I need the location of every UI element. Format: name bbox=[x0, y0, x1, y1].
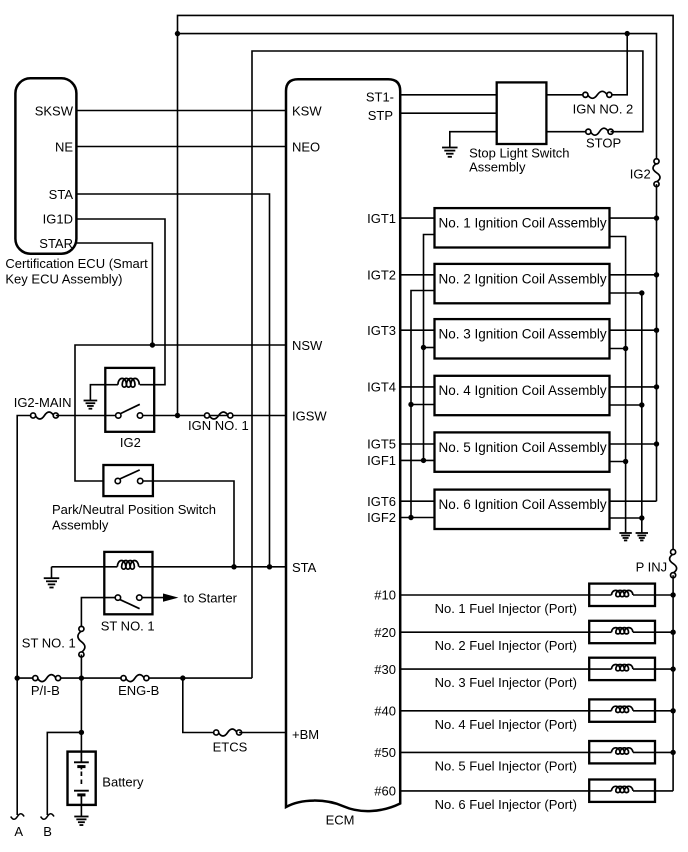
wire injector 6 output bbox=[655, 790, 673, 792]
svg-text:IG2: IG2 bbox=[120, 435, 141, 450]
wire injector 5 output bbox=[655, 751, 673, 753]
wire STP to stop light switch bbox=[400, 112, 497, 114]
svg-text:Park/Neutral Position Switch: Park/Neutral Position Switch bbox=[52, 502, 216, 517]
svg-text:Key ECU Assembly): Key ECU Assembly) bbox=[5, 271, 122, 286]
wire ignition power bus bbox=[656, 184, 658, 218]
node injector bus bbox=[670, 750, 675, 755]
wire ST fuse to bus bbox=[80, 655, 82, 679]
fuse P INJ bbox=[670, 554, 677, 573]
node power bus coil5 bbox=[654, 441, 659, 446]
wire injector 2 output bbox=[655, 631, 673, 633]
wire coil3 feedback lead bbox=[424, 347, 435, 349]
svg-text:IGN NO. 1: IGN NO. 1 bbox=[188, 418, 249, 433]
fuel injector box 6 bbox=[589, 780, 655, 802]
svg-text:No. 6 Fuel Injector (Port): No. 6 Fuel Injector (Port) bbox=[435, 797, 577, 812]
wire IGT6 pin bbox=[400, 500, 434, 502]
wire #40 pin line bbox=[400, 710, 589, 712]
svg-text:IGF1: IGF1 bbox=[367, 453, 396, 468]
node power bus coil4 bbox=[654, 384, 659, 389]
svg-text:IGT5: IGT5 bbox=[367, 437, 396, 452]
svg-text:Stop Light Switch: Stop Light Switch bbox=[469, 146, 569, 161]
svg-text:#60: #60 bbox=[374, 784, 396, 799]
wire NSW line bbox=[75, 345, 286, 481]
svg-text:#40: #40 bbox=[374, 704, 396, 719]
node injector bus bbox=[670, 592, 675, 597]
node IGF1 bus coil5 bbox=[421, 458, 426, 463]
wire coil5 ground lead bbox=[610, 461, 626, 463]
svg-text:No. 2 Ignition Coil Assembly: No. 2 Ignition Coil Assembly bbox=[439, 271, 607, 286]
battery cells bbox=[80, 752, 82, 763]
wire coil4 ground lead bbox=[610, 404, 642, 406]
node ground bus1 coil5 bbox=[623, 459, 628, 464]
battery box bbox=[68, 752, 96, 805]
wire ST1- to stop light switch bbox=[400, 94, 497, 96]
stop light switch assembly bbox=[497, 82, 547, 144]
node IGF2 bus coil4 bbox=[408, 402, 413, 407]
svg-text:ST NO. 1: ST NO. 1 bbox=[22, 636, 76, 651]
ignition coil assembly box 6 bbox=[435, 490, 610, 529]
wire IG2-MAIN fuse to relay contact bbox=[56, 415, 116, 417]
svg-text:IGN NO. 2: IGN NO. 2 bbox=[573, 102, 634, 117]
svg-text:+BM: +BM bbox=[292, 727, 319, 742]
injector coil 1 bbox=[589, 594, 611, 596]
wire coil6 power lead bbox=[610, 500, 657, 502]
ignition coil assembly box 1 bbox=[435, 208, 610, 247]
wire coil ground bus 1 bbox=[610, 237, 626, 534]
svg-text:IG2: IG2 bbox=[630, 167, 651, 182]
svg-text:No. 4 Ignition Coil Assembly: No. 4 Ignition Coil Assembly bbox=[439, 383, 607, 398]
svg-text:Battery: Battery bbox=[102, 775, 144, 790]
ignition coil assembly box 3 bbox=[435, 319, 610, 358]
wire ST relay ground stem bbox=[51, 567, 53, 578]
wire injector 1 output bbox=[655, 594, 673, 596]
wire B branch bbox=[47, 732, 81, 815]
wire ETCS branch bbox=[183, 678, 216, 732]
node STA junction 1 bbox=[231, 564, 236, 569]
wire IGSW line bbox=[143, 415, 286, 417]
svg-text:STP: STP bbox=[368, 108, 393, 123]
node ground bus2 coil4 bbox=[639, 402, 644, 407]
svg-text:No. 1 Ignition Coil Assembly: No. 1 Ignition Coil Assembly bbox=[439, 216, 607, 231]
injector coil 5 bbox=[589, 751, 611, 753]
wire bottom bus bbox=[17, 677, 35, 679]
node IGN NO.2 riser junction bbox=[625, 31, 630, 36]
wire STAR to NSW node bbox=[76, 243, 152, 345]
svg-text:IGT4: IGT4 bbox=[367, 380, 396, 395]
fuse IG2 bbox=[653, 163, 660, 182]
svg-text:STAR: STAR bbox=[39, 236, 73, 251]
wire IG2 relay coil ground lead bbox=[90, 385, 105, 401]
svg-text:No. 4 Fuel Injector (Port): No. 4 Fuel Injector (Port) bbox=[435, 717, 577, 732]
svg-text:ETCS: ETCS bbox=[213, 740, 248, 755]
wire IGF2 bus bbox=[411, 291, 435, 518]
wire stop light switch to IGN NO.2 fuse bbox=[546, 94, 585, 96]
wire STOP fuse to ENG-B bus bbox=[252, 51, 643, 678]
ground (ST NO.1 relay) bbox=[44, 577, 60, 579]
svg-text:KSW: KSW bbox=[292, 104, 322, 119]
wire P/N switch to STA node bbox=[143, 481, 234, 567]
fuse IGN NO. 1 bbox=[209, 412, 228, 419]
svg-text:IG2-MAIN: IG2-MAIN bbox=[14, 395, 72, 410]
svg-text:IG1D: IG1D bbox=[43, 212, 73, 227]
svg-text:IGT3: IGT3 bbox=[367, 323, 396, 338]
wire P INJ to injector bus bbox=[672, 575, 674, 791]
relay ST NO.1 switch bbox=[115, 595, 120, 600]
svg-text:#50: #50 bbox=[374, 745, 396, 760]
svg-text:#10: #10 bbox=[374, 588, 396, 603]
svg-text:STA: STA bbox=[49, 187, 74, 202]
svg-text:IGSW: IGSW bbox=[292, 409, 327, 424]
svg-text:NSW: NSW bbox=[292, 338, 323, 353]
wire #30 pin line bbox=[400, 668, 589, 670]
wire IGN NO.2 output riser bbox=[609, 34, 627, 95]
wire coil3 power lead bbox=[610, 329, 657, 331]
wire coil4 power lead bbox=[610, 386, 657, 388]
relay IG2 coil bbox=[118, 378, 139, 387]
wire SKSW to KSW bbox=[76, 110, 286, 112]
svg-text:No. 5 Fuel Injector (Port): No. 5 Fuel Injector (Port) bbox=[435, 758, 577, 773]
injector coil 6 bbox=[589, 790, 611, 792]
svg-text:STA: STA bbox=[292, 560, 317, 575]
svg-text:#30: #30 bbox=[374, 662, 396, 677]
svg-text:IGT1: IGT1 bbox=[367, 211, 396, 226]
wire IGT5 pin bbox=[400, 443, 434, 445]
certification ECU (Smart Key ECU Assembly) bbox=[15, 78, 76, 253]
wire stop light switch ground lead bbox=[450, 132, 497, 148]
svg-text:No. 1 Fuel Injector (Port): No. 1 Fuel Injector (Port) bbox=[435, 601, 577, 616]
node bus ETCS junction bbox=[180, 675, 185, 680]
svg-text:ST1-: ST1- bbox=[366, 89, 394, 104]
wire #60 pin line bbox=[400, 790, 589, 792]
svg-text:IGT6: IGT6 bbox=[367, 494, 396, 509]
node riser junction bbox=[175, 31, 180, 36]
relay ST NO.1 box bbox=[104, 552, 152, 614]
wire #50 pin line bbox=[400, 751, 589, 753]
ground (ignition coils 1-3-5) bbox=[619, 532, 631, 534]
ignition coil assembly box 4 bbox=[435, 376, 610, 415]
wire IGT4 pin bbox=[400, 386, 434, 388]
wire IGF1 pin bbox=[400, 459, 434, 461]
wire IGT3 pin bbox=[400, 329, 434, 331]
svg-text:ST NO. 1: ST NO. 1 bbox=[101, 618, 155, 633]
node battery junction bbox=[79, 730, 84, 735]
svg-text:Certification ECU (Smart: Certification ECU (Smart bbox=[5, 256, 148, 271]
ground (stop light switch) bbox=[442, 147, 458, 149]
wire coil6 ground lead bbox=[610, 517, 642, 519]
svg-text:SKSW: SKSW bbox=[35, 103, 74, 118]
node power bus coil2 bbox=[654, 272, 659, 277]
svg-text:NEO: NEO bbox=[292, 139, 320, 154]
wire #20 pin line bbox=[400, 631, 589, 633]
svg-text:No. 5 Ignition Coil Assembly: No. 5 Ignition Coil Assembly bbox=[439, 440, 607, 455]
fuse ENG-B bbox=[126, 675, 145, 682]
park/neutral position switch box bbox=[103, 465, 152, 496]
svg-text:B: B bbox=[43, 824, 52, 839]
park/neutral switch contacts bbox=[115, 478, 120, 483]
wire IGT2 pin bbox=[400, 274, 434, 276]
node NSW junction bbox=[150, 342, 155, 347]
wire ETCS to +BM bbox=[239, 732, 286, 734]
wire battery drop bbox=[80, 678, 82, 752]
wire IG1D to IG2 relay coil bbox=[76, 219, 165, 385]
ground (ignition coils 2-4-6) bbox=[636, 532, 648, 534]
svg-text:NE: NE bbox=[55, 139, 73, 154]
fuel injector box 4 bbox=[589, 699, 655, 721]
fuse IGN NO. 2 bbox=[588, 91, 608, 98]
svg-text:IGT2: IGT2 bbox=[367, 268, 396, 283]
wire injector 3 output bbox=[655, 668, 673, 670]
wire to Starter + arrow bbox=[142, 597, 164, 599]
wire IG2-MAIN corner bbox=[17, 416, 33, 816]
svg-text:A: A bbox=[14, 824, 23, 839]
ignition coil assembly box 5 bbox=[435, 432, 610, 471]
node injector bus bbox=[670, 630, 675, 635]
ignition coil assembly box 2 bbox=[435, 264, 610, 303]
relay ST NO.1 coil bbox=[117, 561, 138, 570]
injector coil 3 bbox=[589, 668, 611, 670]
wire coil ground bus 2 bbox=[610, 293, 642, 533]
wire IGSW riser bbox=[178, 15, 674, 552]
node power bus coil1 bbox=[654, 215, 659, 220]
ground (battery) bbox=[74, 816, 88, 818]
wire coil5 power lead bbox=[610, 443, 657, 445]
wire IGF2 pin bbox=[400, 517, 434, 519]
wire IGF1 bus bbox=[424, 235, 435, 461]
wire coil4 feedback lead bbox=[411, 404, 435, 406]
wire injector 4 output bbox=[655, 710, 673, 712]
wire STA (cert ECU) to STA node bbox=[76, 194, 269, 567]
node ground bus2 coil2 bbox=[639, 290, 644, 295]
svg-text:No. 2 Fuel Injector (Port): No. 2 Fuel Injector (Port) bbox=[435, 638, 577, 653]
node STA junction 2 bbox=[267, 564, 272, 569]
svg-text:STOP: STOP bbox=[586, 136, 621, 151]
node bus left junction bbox=[15, 675, 20, 680]
fuel injector box 5 bbox=[589, 741, 655, 763]
svg-text:No. 3 Ignition Coil Assembly: No. 3 Ignition Coil Assembly bbox=[439, 327, 607, 342]
fuse STOP bbox=[590, 128, 608, 135]
wire top bus to IG2 fuse bbox=[178, 34, 657, 162]
wire ST relay switch to fuse bbox=[81, 598, 115, 629]
node IGSW junction bbox=[175, 413, 180, 418]
ground (IG2 relay) bbox=[84, 400, 98, 402]
fuse ETCS bbox=[218, 729, 237, 736]
wire STA line bbox=[52, 566, 118, 568]
svg-text:Assembly: Assembly bbox=[52, 518, 109, 533]
node injector bus bbox=[670, 708, 675, 713]
fuel injector box 2 bbox=[589, 621, 655, 643]
node IGF2 bus coil6 bbox=[408, 515, 413, 520]
fuel injector box 3 bbox=[589, 658, 655, 680]
svg-text:Assembly: Assembly bbox=[469, 160, 526, 175]
node power bus coil3 bbox=[654, 328, 659, 333]
svg-text:P/I-B: P/I-B bbox=[31, 683, 60, 698]
svg-text:IGF2: IGF2 bbox=[367, 510, 396, 525]
wire coil3 ground lead bbox=[610, 348, 626, 350]
wire break A bbox=[11, 814, 24, 820]
node bus ST junction bbox=[79, 675, 84, 680]
node injector bus bbox=[670, 666, 675, 671]
node ground bus2 coil6 bbox=[639, 515, 644, 520]
relay IG2 box bbox=[105, 368, 154, 432]
wire break B bbox=[41, 814, 54, 820]
wire NE to NEO bbox=[76, 146, 286, 148]
svg-text:to Starter: to Starter bbox=[184, 590, 238, 605]
wire IGT1 pin bbox=[400, 217, 434, 219]
injector coil 4 bbox=[589, 710, 611, 712]
svg-text:ECM: ECM bbox=[326, 813, 355, 828]
svg-text:No. 6 Ignition Coil Assembly: No. 6 Ignition Coil Assembly bbox=[439, 497, 607, 512]
injector coil 2 bbox=[589, 631, 611, 633]
fuel injector box 1 bbox=[589, 584, 655, 606]
fuse P/I-B bbox=[37, 675, 56, 682]
node IGF1 bus coil3 bbox=[421, 345, 426, 350]
wire #10 pin line bbox=[400, 594, 589, 596]
svg-text:No. 3 Fuel Injector (Port): No. 3 Fuel Injector (Port) bbox=[435, 675, 577, 690]
node ground bus1 coil3 bbox=[623, 346, 628, 351]
svg-text:ENG-B: ENG-B bbox=[118, 683, 159, 698]
relay IG2 switch bbox=[116, 413, 121, 418]
wire stop light switch to STOP fuse bbox=[546, 131, 588, 133]
svg-text:P INJ: P INJ bbox=[636, 560, 668, 575]
fuse ST NO. 1 bbox=[78, 631, 85, 652]
wire coil2 power lead bbox=[610, 274, 657, 276]
wire battery ground stem bbox=[80, 805, 82, 817]
wire coil1 power lead bbox=[610, 217, 657, 219]
fuse IG2-MAIN bbox=[35, 412, 54, 419]
svg-text:#20: #20 bbox=[374, 625, 396, 640]
ECM body bbox=[286, 79, 400, 811]
